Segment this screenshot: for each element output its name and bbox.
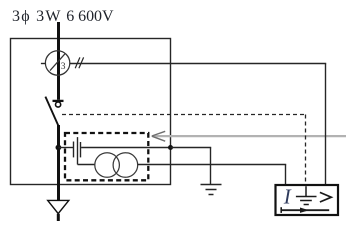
wire capacitor output to node B [81, 147, 170, 149]
wire ZCT left tick [41, 63, 45, 65]
relay earth symbol [296, 186, 317, 204]
disconnector blade [45, 97, 58, 127]
ZCT circle with 3-core slash [45, 51, 69, 75]
dashed box (voltage detector unit) [65, 133, 148, 180]
ground earth symbol [201, 185, 222, 195]
relay greater-than mark [320, 192, 331, 202]
relay U1 earth-fault relay box [276, 185, 339, 215]
wire below triangle [57, 214, 60, 221]
wire ZCT secondary to relay (top horizontal) [70, 63, 326, 65]
wire down into relay box left [285, 165, 287, 187]
label 3phi3W 6600V [12, 8, 114, 25]
svg-text:6 600V: 6 600V [66, 8, 114, 25]
svg-text:3ϕ 3W: 3ϕ 3W [12, 8, 61, 25]
wire bus to capacitor [58, 147, 73, 149]
wire transformer output to relay [138, 164, 287, 166]
conductor count marks // [75, 57, 83, 68]
control dashed vertical to relay box [305, 115, 307, 187]
svg-text:I: I [283, 184, 292, 208]
capacitor divider plates [74, 137, 81, 164]
wire node B to earth [171, 147, 212, 149]
relay trip direction arrow [280, 207, 282, 213]
annotation gray arrow [153, 135, 346, 137]
cable head terminal triangle [48, 200, 69, 213]
control dashed line from switch [62, 114, 306, 116]
node B junction [168, 145, 173, 150]
transformer (two overlapping circles) [95, 153, 138, 178]
disconnector switch contact [53, 100, 64, 102]
svg-text:3: 3 [61, 62, 66, 72]
wire capacitor tap down to transformer [78, 164, 96, 166]
wire bus lower segment [57, 125, 60, 200]
wire incoming bus (top) [57, 22, 60, 100]
wire right vertical down to relay box [325, 64, 327, 187]
node A junction on bus [56, 145, 62, 151]
enclosure box (cubicle) [11, 39, 171, 185]
